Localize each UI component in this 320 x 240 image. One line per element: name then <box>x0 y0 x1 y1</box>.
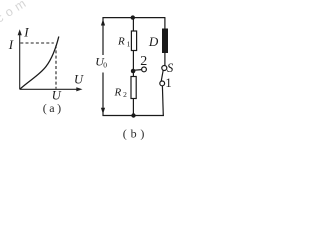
U0 arrowhead up <box>101 19 105 25</box>
svg-text:1: 1 <box>127 40 131 49</box>
node dot at junction of R1,R2 and terminal 2 <box>131 69 136 74</box>
stub wire to terminal 2 <box>133 69 141 72</box>
wire: top to R1 <box>132 18 134 31</box>
svg-text:R: R <box>114 86 122 98</box>
wire: R2 to bottom <box>132 99 134 116</box>
resistor R2 <box>131 77 136 99</box>
wire: D to switch <box>164 53 166 65</box>
svg-text:0: 0 <box>103 60 107 69</box>
graph (a) y-axis arrowhead <box>18 29 22 35</box>
svg-text:U: U <box>74 73 84 87</box>
svg-text:D: D <box>148 34 159 49</box>
svg-text:1: 1 <box>165 76 171 90</box>
circuit left wire (U0 measurement line) upper segment <box>102 17 104 55</box>
svg-text:2: 2 <box>123 90 127 99</box>
graph (a) I-U characteristic curve <box>20 37 59 90</box>
resistor R1 <box>131 31 136 51</box>
wire: node to R2 <box>132 71 134 77</box>
terminal 2 circle <box>142 67 147 72</box>
graph (a) x-axis <box>20 88 80 90</box>
junction dot bottom <box>131 113 135 117</box>
switch blade <box>161 70 163 81</box>
switch lower contact circle (terminal 1) <box>160 81 165 86</box>
svg-text:S: S <box>167 61 174 75</box>
junction dot top (middle branch) <box>131 15 135 19</box>
svg-text:I: I <box>8 37 14 52</box>
svg-text:(a): (a) <box>43 101 64 115</box>
circuit left wire lower segment <box>102 73 104 117</box>
svg-text:R: R <box>117 36 125 48</box>
graph (a) dashed horizontal guide at I <box>20 42 54 44</box>
switch S upper contact circle <box>162 66 167 71</box>
graph (a) x-axis arrowhead <box>76 87 82 91</box>
graph (a) y-axis <box>19 32 21 90</box>
svg-text:I: I <box>23 25 29 40</box>
svg-text:2: 2 <box>140 54 147 69</box>
circuit top wire <box>103 17 166 19</box>
wire: switch to bottom <box>161 86 164 116</box>
svg-text:(b): (b) <box>123 126 148 140</box>
wire: R1 to node 2 <box>132 51 134 72</box>
device D (filled box) <box>162 29 168 54</box>
U0 arrowhead down <box>101 108 105 114</box>
wire: top wire to D <box>164 17 166 28</box>
graph (a) dashed vertical guide at U <box>55 45 57 88</box>
circuit bottom wire <box>103 115 164 117</box>
